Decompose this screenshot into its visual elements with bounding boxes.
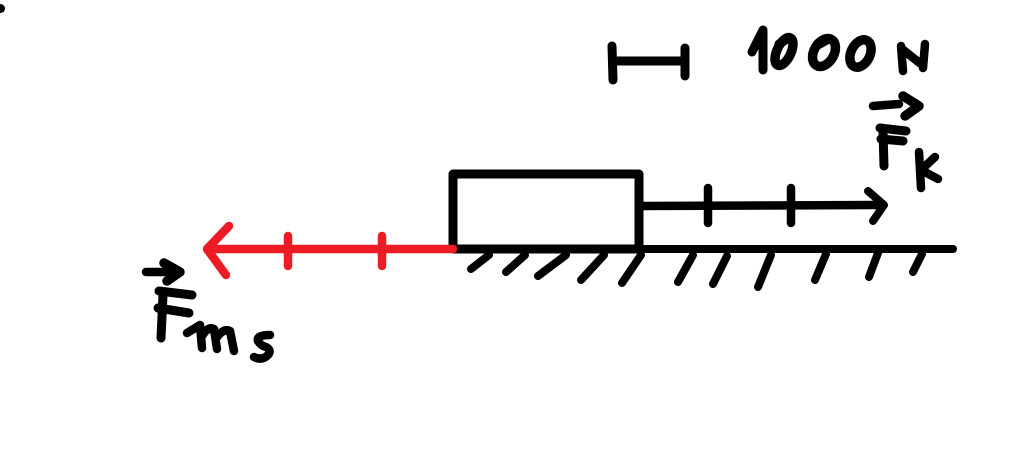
label Fk subscript k	[919, 152, 938, 188]
vector hat arrow over Fms	[146, 268, 168, 277]
force arrow Fk head	[868, 191, 884, 221]
scale bar right tick	[681, 48, 690, 76]
ground hatch 8	[758, 255, 771, 287]
label Fms subscript m	[187, 325, 234, 351]
label 1000N digit 0 first	[771, 35, 796, 68]
block rectangle	[453, 174, 639, 249]
ground line	[451, 245, 953, 253]
ground hatch 9	[815, 254, 826, 280]
force arrow Fk tick 2	[787, 188, 796, 223]
label 1000N digit 1	[752, 30, 763, 70]
ground hatch 6	[678, 255, 693, 282]
label 1000N letter N	[901, 44, 925, 71]
stray dot top-left	[0, 4, 5, 13]
label 1000N digit 0 third	[846, 36, 876, 70]
friction arrow Fms tick 1	[284, 236, 293, 266]
force arrow Fk tick 1	[704, 188, 713, 223]
label Fms subscript s	[254, 335, 270, 359]
ground hatch 11	[913, 254, 922, 272]
friction arrow Fms shaft	[210, 245, 453, 254]
label 1000N digit 0 second	[808, 35, 840, 71]
scale bar left tick	[612, 46, 613, 80]
force arrow Fk shaft	[640, 205, 876, 206]
ground hatch 4	[581, 255, 604, 280]
ground hatch 7	[713, 256, 727, 284]
label Fk letter F	[880, 128, 906, 166]
ground hatch 1	[471, 255, 489, 269]
scale bar horizontal	[617, 57, 684, 66]
ground hatch 2	[506, 255, 525, 272]
ground hatch 3	[538, 255, 566, 276]
label Fms letter F	[158, 291, 192, 338]
friction arrow Fms head	[207, 226, 229, 275]
ground hatch 10	[869, 253, 878, 277]
ground hatch 5	[622, 255, 641, 283]
friction arrow Fms tick 2	[378, 236, 387, 266]
vector hat arrow over Fk	[873, 104, 899, 106]
